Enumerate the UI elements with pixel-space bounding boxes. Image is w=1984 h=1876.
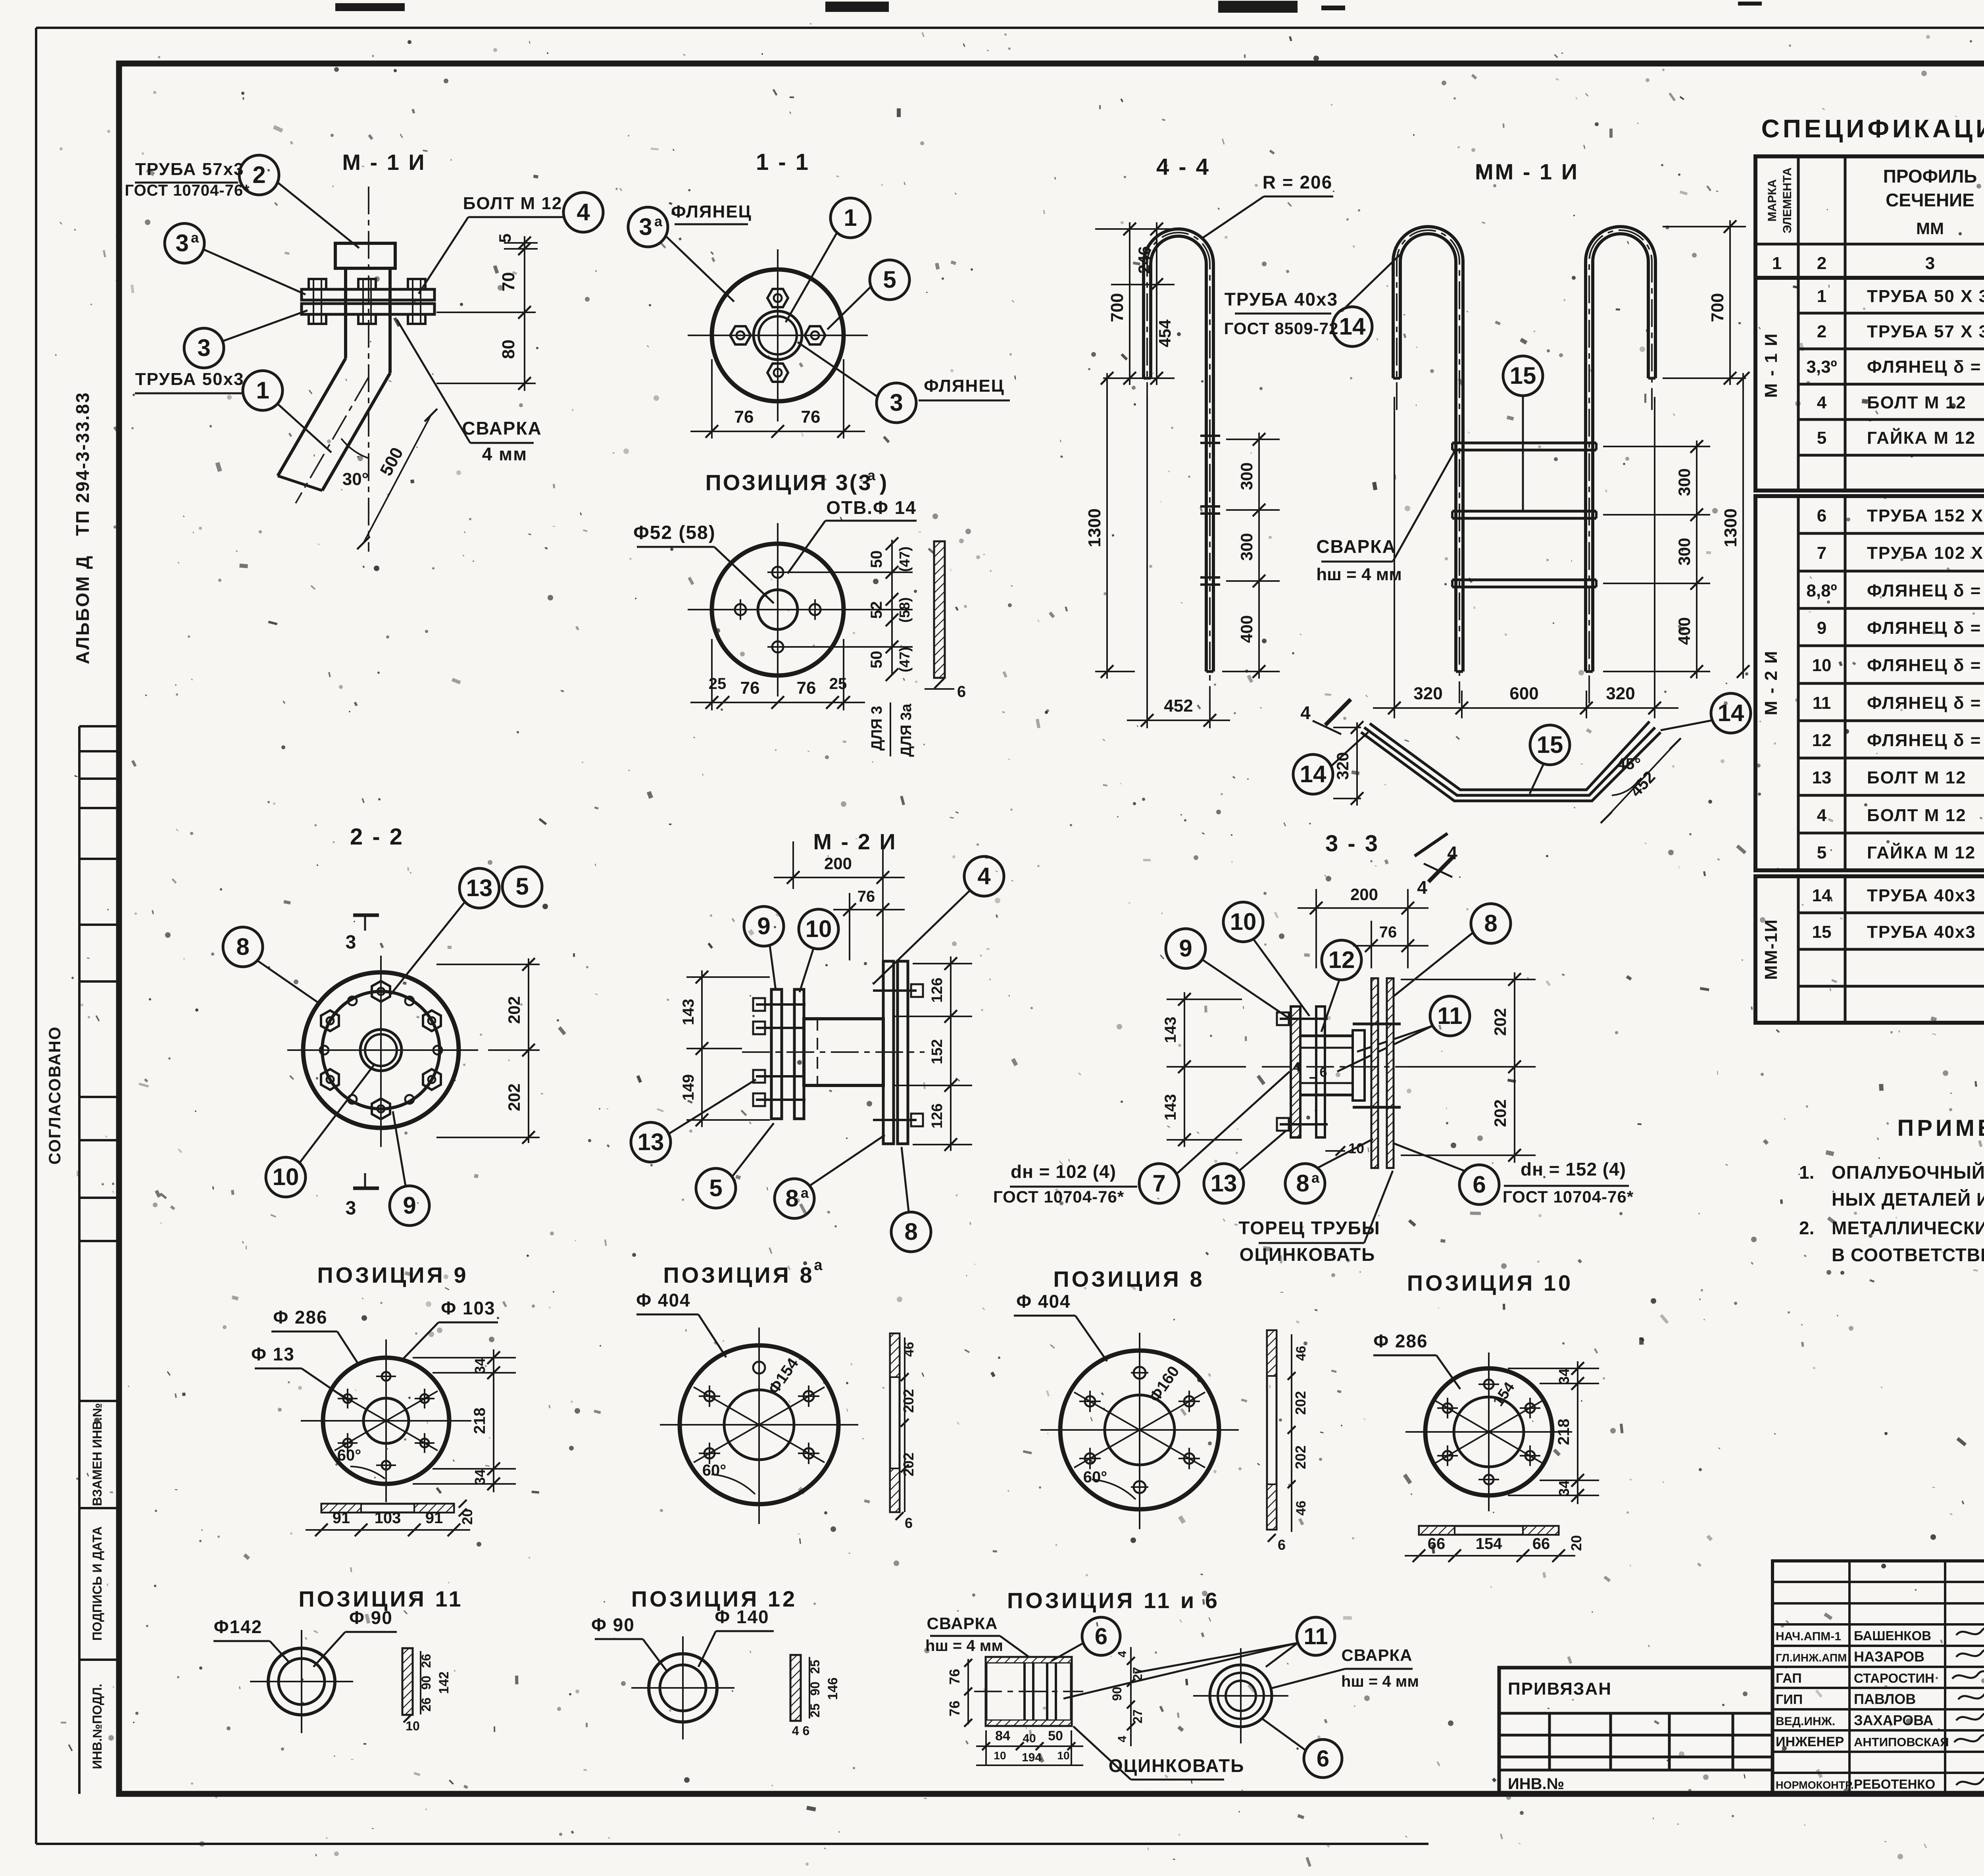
pipe section side view (986, 1657, 1071, 1726)
M-2I pipe 152 (804, 1019, 883, 1085)
svg-text:1: 1 (1817, 287, 1826, 306)
svg-text:202: 202 (1292, 1445, 1309, 1469)
svg-text:Φ 90: Φ 90 (591, 1614, 635, 1635)
svg-text:700: 700 (1708, 293, 1727, 322)
svg-text:3: 3 (639, 214, 652, 240)
section 3-3 marks (353, 914, 379, 917)
svg-text:СТАРОСТИН: СТАРОСТИН (1854, 1671, 1934, 1686)
svg-text:202: 202 (900, 1389, 917, 1413)
svg-text:76: 76 (801, 407, 821, 427)
svg-text:76: 76 (1379, 924, 1397, 941)
svg-text:1300: 1300 (1721, 508, 1740, 547)
svg-text:76: 76 (946, 1701, 963, 1716)
balloon 13 M2 (631, 1122, 671, 1162)
svg-text:202: 202 (1491, 1099, 1509, 1127)
svg-text:НАЗАРОВ: НАЗАРОВ (1854, 1649, 1924, 1665)
flange plates pos3/3a (302, 289, 434, 300)
svg-text:а: а (867, 467, 876, 483)
balloon 9 M2 (744, 906, 784, 946)
svg-text:1300: 1300 (1085, 508, 1104, 547)
svg-text:30°: 30° (342, 469, 369, 489)
svg-text:91: 91 (425, 1509, 443, 1527)
svg-text:ПОЗИЦИЯ 8: ПОЗИЦИЯ 8 (663, 1262, 814, 1287)
svg-text:а: а (191, 229, 199, 246)
svg-text:СВАРКА: СВАРКА (462, 418, 542, 439)
svg-text:БОЛТ М 12: БОЛТ М 12 (463, 194, 563, 213)
svg-text:300: 300 (1675, 538, 1694, 566)
dim 452 along diagonal (1606, 744, 1675, 818)
svg-text:МЕТАЛЛИЧЕСКИЕ ИЗДЕЛИЯ М-1И, М-: МЕТАЛЛИЧЕСКИЕ ИЗДЕЛИЯ М-1И, М-2И, ММ-1И … (1832, 1218, 1984, 1238)
svg-text:84: 84 (995, 1728, 1010, 1743)
svg-text:6: 6 (1473, 1171, 1486, 1198)
svg-text:4: 4 (1116, 1651, 1129, 1657)
svg-text:202: 202 (1292, 1391, 1309, 1415)
svg-text:hш = 4 мм: hш = 4 мм (1316, 565, 1402, 584)
svg-text:14: 14 (1300, 761, 1327, 787)
signature table (1773, 1561, 1984, 1794)
svg-text:76: 76 (734, 407, 754, 427)
2-2 flange circles (303, 972, 459, 1128)
svg-text:34: 34 (472, 1358, 488, 1374)
6 small holes (405, 997, 414, 1005)
svg-text:ГЛ.ИНЖ.АПМ: ГЛ.ИНЖ.АПМ (1776, 1652, 1847, 1664)
svg-text:45°: 45° (1617, 755, 1641, 773)
svg-text:ФЛЯНЕЦ δ = 6: ФЛЯНЕЦ δ = 6 (1867, 357, 1984, 377)
svg-text:СЕЧЕНИЕ: СЕЧЕНИЕ (1886, 190, 1974, 210)
M-2I bolts (756, 1003, 806, 1006)
rungs pos 15 (1452, 442, 1596, 444)
svg-text:5: 5 (709, 1175, 722, 1201)
pipe pos7 horizontal (1301, 1035, 1353, 1037)
svg-text:25: 25 (829, 675, 847, 693)
svg-text:1: 1 (256, 377, 269, 404)
svg-text:2: 2 (252, 162, 265, 188)
svg-text:ММ-1И: ММ-1И (1761, 919, 1781, 980)
4-4 bottom dim 452 (1146, 397, 1148, 728)
svg-text:ПРИВЯЗАН: ПРИВЯЗАН (1508, 1679, 1612, 1699)
svg-text:4: 4 (1817, 393, 1827, 412)
rung stubs on right leg (1200, 435, 1220, 437)
svg-text:М - 2 И: М - 2 И (813, 829, 897, 854)
svg-text:СВАРКА: СВАРКА (1342, 1646, 1413, 1664)
pos3 right dim chain (891, 540, 893, 675)
svg-text:27: 27 (1130, 1709, 1145, 1724)
M-2I flange plates left (pos 9,10) (771, 989, 782, 1119)
svg-text:4: 4 (577, 199, 590, 225)
section mark 4 upper (1325, 699, 1351, 725)
4-4 left dims (1095, 228, 1175, 230)
svg-text:90: 90 (419, 1676, 433, 1690)
connecting plates pos 11/12 (1353, 1030, 1365, 1101)
balloon 5 M2 (696, 1168, 736, 1208)
pos2 sleeve (335, 243, 395, 268)
svg-text:15: 15 (1812, 922, 1832, 942)
svg-text:АЛЬБОМ Д ТП 294-3-33.83: АЛЬБОМ Д ТП 294-3-33.83 (72, 391, 93, 664)
svg-text:М - 2 И: М - 2 И (1761, 650, 1781, 715)
pos 10 flange (1425, 1368, 1552, 1495)
svg-text:60°: 60° (1083, 1468, 1107, 1486)
svg-text:80: 80 (499, 340, 518, 359)
svg-text:ТРУБА 40х3: ТРУБА 40х3 (1225, 289, 1338, 310)
svg-text:М - 1 И: М - 1 И (1761, 332, 1781, 398)
svg-text:ПОЗИЦИЯ 11 и 6: ПОЗИЦИЯ 11 и 6 (1007, 1588, 1220, 1613)
svg-text:4: 4 (977, 863, 991, 889)
6 hex nuts (372, 981, 390, 1002)
svg-text:14: 14 (1339, 313, 1366, 340)
svg-text:4 6: 4 6 (792, 1724, 809, 1738)
svg-text:52: 52 (868, 601, 885, 619)
svg-text:90: 90 (808, 1682, 822, 1696)
svg-text:152: 152 (929, 1039, 946, 1064)
trapezoid dims (1356, 722, 1358, 806)
svg-text:452: 452 (1164, 696, 1193, 716)
svg-text:200: 200 (1350, 885, 1378, 904)
svg-text:dн = 152 (4): dн = 152 (4) (1521, 1159, 1626, 1179)
svg-text:14: 14 (1718, 700, 1744, 726)
svg-text:6: 6 (1317, 1746, 1329, 1772)
svg-text:Φ 404: Φ 404 (1016, 1291, 1071, 1312)
section mark 4 lower (1428, 856, 1454, 882)
balloon 3a (628, 207, 668, 247)
right vertical pipe pos6 (1371, 978, 1378, 1168)
svg-text:15: 15 (1510, 362, 1536, 389)
svg-text:ОПАЛУБОЧНЫЙ ЧЕРТЕЖ ВАННЫ БАССЕ: ОПАЛУБОЧНЫЙ ЧЕРТЕЖ ВАННЫ БАССЕЙНА, РАСПО… (1832, 1162, 1984, 1183)
svg-text:Φ 103: Φ 103 (441, 1298, 495, 1318)
svg-text:246: 246 (1135, 246, 1153, 274)
svg-text:5: 5 (515, 873, 529, 900)
ladder right dims (1663, 226, 1746, 227)
svg-text:10: 10 (1230, 908, 1257, 935)
svg-text:hш = 4 мм: hш = 4 мм (1341, 1673, 1419, 1690)
svg-text:ГОСТ 10704-76*: ГОСТ 10704-76* (1503, 1187, 1634, 1206)
pos 11 ring (268, 1648, 335, 1715)
svg-text:(58): (58) (896, 597, 913, 623)
balloon 14 left (1293, 754, 1333, 794)
svg-text:202: 202 (505, 1083, 523, 1111)
svg-text:М - 1 И: М - 1 И (342, 150, 426, 175)
svg-text:149: 149 (680, 1074, 697, 1101)
svg-text:6: 6 (957, 683, 966, 700)
svg-text:320: 320 (1606, 684, 1635, 703)
svg-text:13: 13 (638, 1129, 664, 1155)
pos 12 ring (649, 1654, 717, 1722)
svg-text:50: 50 (1048, 1728, 1063, 1743)
pos 10 strip (1419, 1526, 1559, 1535)
svg-text:143: 143 (680, 999, 697, 1026)
svg-text:ПАВЛОВ: ПАВЛОВ (1854, 1691, 1916, 1707)
svg-text:ФЛЯНЕЦ δ = 6: ФЛЯНЕЦ δ = 6 (1867, 731, 1984, 750)
svg-text:5: 5 (1817, 428, 1826, 448)
svg-text:ТРУБА 152 X 4: ТРУБА 152 X 4 (1867, 506, 1984, 525)
svg-text:34: 34 (1556, 1480, 1572, 1496)
svg-text:34: 34 (1556, 1368, 1572, 1384)
svg-text:6: 6 (1320, 1065, 1327, 1080)
svg-text:ТРУБА 40х3: ТРУБА 40х3 (1867, 922, 1976, 942)
pos 8 flange (1060, 1351, 1219, 1509)
4-4 hook (1144, 229, 1213, 672)
svg-text:ПОЗИЦИЯ 3(3: ПОЗИЦИЯ 3(3 (705, 470, 872, 495)
svg-text:400: 400 (1675, 617, 1694, 645)
svg-text:ИНЖЕНЕР: ИНЖЕНЕР (1776, 1734, 1844, 1749)
svg-text:76: 76 (797, 678, 816, 698)
specification table (1755, 156, 1984, 278)
svg-text:СПЕЦИФИКАЦИЯ МЕТАЛЛИЧЕСКИХ ИЗД: СПЕЦИФИКАЦИЯ МЕТАЛЛИЧЕСКИХ ИЗДЕЛИЙ (1761, 114, 1984, 143)
svg-text:300: 300 (1237, 533, 1256, 561)
svg-text:3: 3 (890, 389, 903, 416)
svg-text:143: 143 (1162, 1094, 1179, 1121)
svg-text:142: 142 (436, 1672, 452, 1694)
svg-text:66: 66 (1532, 1535, 1550, 1553)
balloon 6 top (1082, 1617, 1120, 1655)
balloon 9 (390, 1186, 429, 1226)
pos 8a strip (890, 1333, 900, 1512)
svg-text:1.: 1. (1799, 1162, 1814, 1183)
balloons 9 10 12 8 11 (1166, 929, 1205, 968)
svg-text:91: 91 (333, 1509, 350, 1527)
svg-text:46: 46 (1294, 1346, 1309, 1361)
svg-text:76: 76 (946, 1669, 963, 1685)
centerline 3-3 (1262, 1066, 1428, 1068)
svg-text:ПОЗИЦИЯ 12: ПОЗИЦИЯ 12 (631, 1586, 797, 1611)
svg-text:СВАРКА: СВАРКА (927, 1614, 998, 1633)
svg-text:ГАП: ГАП (1776, 1671, 1802, 1686)
pos 8a flange (680, 1345, 838, 1504)
svg-text:50: 50 (868, 550, 885, 568)
svg-text:dн = 102 (4): dн = 102 (4) (1011, 1161, 1116, 1182)
svg-text:(47): (47) (896, 546, 913, 572)
balloons 13 5 (459, 868, 499, 908)
svg-text:50: 50 (868, 651, 885, 669)
svg-text:218: 218 (1555, 1419, 1573, 1445)
svg-text:ГАЙКА M 12: ГАЙКА M 12 (1867, 427, 1976, 448)
svg-text:11: 11 (1813, 693, 1831, 713)
dims left pos11i6 (967, 1659, 969, 1724)
svg-text:146: 146 (825, 1678, 840, 1700)
pos3 bottom dims (711, 639, 713, 710)
balloon 8 M2 (891, 1212, 931, 1252)
svg-text:11: 11 (1303, 1624, 1328, 1649)
svg-text:6: 6 (1095, 1624, 1107, 1649)
2-2 dims 202/202 (436, 964, 540, 965)
svg-text:4 - 4: 4 - 4 (1156, 154, 1210, 180)
svg-text:НОРМОКОНТР.: НОРМОКОНТР. (1776, 1779, 1854, 1791)
svg-text:ДЛЯ 3а: ДЛЯ 3а (898, 703, 915, 757)
svg-text:а: а (801, 1185, 809, 1201)
svg-text:Φ 286: Φ 286 (1373, 1331, 1428, 1351)
svg-text:4: 4 (1300, 702, 1311, 723)
mid dim column (1130, 1647, 1132, 1746)
vertical pipe pos1 (344, 268, 347, 358)
svg-text:а: а (814, 1257, 823, 1274)
svg-text:10: 10 (1812, 656, 1832, 675)
svg-text:218: 218 (471, 1408, 488, 1434)
svg-text:300: 300 (1675, 468, 1694, 496)
M-2I centerline (742, 1051, 925, 1053)
pos 12 strip (790, 1655, 801, 1721)
balloon 5 (870, 260, 909, 300)
svg-text:1: 1 (1772, 254, 1782, 273)
svg-text:202: 202 (1491, 1008, 1509, 1036)
svg-text:12: 12 (1812, 731, 1832, 750)
svg-text:400: 400 (1237, 615, 1256, 643)
svg-text:ТРУБА 40х3: ТРУБА 40х3 (1867, 886, 1976, 905)
svg-text:ГОСТ 10704-76*: ГОСТ 10704-76* (125, 182, 250, 199)
svg-text:ОЦИНКОВАТЬ: ОЦИНКОВАТЬ (1109, 1755, 1245, 1776)
svg-text:3: 3 (346, 1198, 356, 1219)
svg-text:8: 8 (1484, 910, 1497, 937)
svg-text:ПОЗИЦИЯ 8: ПОЗИЦИЯ 8 (1053, 1266, 1204, 1291)
right hook (1586, 227, 1655, 672)
svg-text:ПРИМЕЧАНИЯ: ПРИМЕЧАНИЯ (1897, 1115, 1984, 1141)
balloon 6 bottom (1304, 1739, 1342, 1778)
svg-text:АНТИПОВСКАЯ: АНТИПОВСКАЯ (1854, 1735, 1949, 1749)
svg-text:9: 9 (403, 1192, 416, 1219)
balloon 15 (1503, 356, 1543, 396)
privyazan block (1499, 1668, 1773, 1794)
svg-text:ГАЙКА M 12: ГАЙКА M 12 (1867, 842, 1976, 862)
svg-text:126: 126 (929, 1103, 946, 1128)
svg-text:Φ 286: Φ 286 (273, 1307, 327, 1328)
M-1I drawing: center line (368, 187, 369, 552)
svg-text:2: 2 (1817, 322, 1826, 341)
svg-text:202: 202 (505, 996, 523, 1024)
svg-text:10: 10 (406, 1719, 420, 1733)
pos 8 strip (1267, 1330, 1277, 1530)
svg-text:25: 25 (808, 1703, 822, 1718)
svg-text:4 мм: 4 мм (482, 444, 527, 464)
svg-text:26: 26 (419, 1697, 433, 1712)
svg-text:3: 3 (346, 932, 356, 953)
svg-text:ТРУБА 50 X 3: ТРУБА 50 X 3 (1867, 287, 1984, 306)
svg-text:25: 25 (709, 675, 727, 693)
svg-text:25: 25 (808, 1660, 822, 1674)
svg-text:14: 14 (1812, 886, 1832, 905)
svg-text:3,3º: 3,3º (1806, 357, 1837, 377)
leader 2 to sleeve (278, 183, 359, 248)
svg-text:9: 9 (757, 913, 770, 939)
svg-text:103: 103 (375, 1509, 401, 1527)
svg-text:ТОРЕЦ ТРУБЫ: ТОРЕЦ ТРУБЫ (1238, 1218, 1380, 1238)
svg-text:6: 6 (1278, 1537, 1286, 1553)
svg-text:143: 143 (1162, 1017, 1179, 1043)
svg-text:4: 4 (1116, 1736, 1129, 1742)
M-2I right plates (pos 8a,8) (883, 961, 894, 1144)
svg-text:ПРОФИЛЬ: ПРОФИЛЬ (1883, 166, 1977, 187)
svg-text:2.: 2. (1799, 1218, 1814, 1238)
svg-text:ММ - 1 И: ММ - 1 И (1475, 159, 1579, 184)
svg-text:hш = 4 мм: hш = 4 мм (925, 1637, 1003, 1655)
svg-text:ОТВ.Φ 14: ОТВ.Φ 14 (826, 497, 917, 518)
svg-text:46: 46 (1294, 1501, 1309, 1516)
svg-text:ГОСТ 10704-76*: ГОСТ 10704-76* (993, 1187, 1124, 1206)
balloon 8a M2 (775, 1179, 814, 1218)
svg-text:ИНВ.№ПОДЛ.: ИНВ.№ПОДЛ. (90, 1684, 104, 1769)
svg-text:ОЦИНКОВАТЬ: ОЦИНКОВАТЬ (1240, 1244, 1376, 1265)
svg-text:ПОЗИЦИЯ 9: ПОЗИЦИЯ 9 (317, 1262, 468, 1287)
svg-text:10: 10 (806, 916, 832, 942)
pos 9 flange (323, 1358, 449, 1484)
svg-text:ИНВ.№: ИНВ.№ (1508, 1775, 1564, 1793)
svg-text:): ) (880, 470, 887, 495)
svg-text:5: 5 (883, 266, 896, 293)
left hook (1393, 227, 1463, 672)
svg-text:13: 13 (466, 875, 493, 901)
pos3 flange circle (712, 544, 844, 675)
svg-text:300: 300 (1237, 462, 1256, 490)
svg-text:4: 4 (1447, 843, 1457, 863)
section mark near title (1415, 833, 1448, 856)
svg-text:154: 154 (1476, 1535, 1502, 1553)
svg-text:34: 34 (472, 1469, 488, 1485)
svg-text:ФЛЯНЕЦ δ = 20: ФЛЯНЕЦ δ = 20 (1867, 618, 1984, 638)
balloon 3 (877, 383, 916, 423)
svg-text:10: 10 (994, 1749, 1006, 1762)
svg-text:ГИП: ГИП (1776, 1692, 1803, 1707)
svg-text:ТРУБА 50х3: ТРУБА 50х3 (135, 369, 244, 389)
svg-text:(47): (47) (896, 647, 913, 672)
svg-text:8: 8 (1296, 1170, 1309, 1197)
svg-text:ФЛЯНЕЦ: ФЛЯНЕЦ (671, 202, 752, 221)
svg-text:8,8º: 8,8º (1806, 581, 1837, 600)
balloons 7 13 8a 6 (1139, 1164, 1179, 1203)
svg-text:3: 3 (197, 335, 210, 361)
svg-text:2: 2 (1817, 254, 1826, 273)
svg-text:8: 8 (785, 1185, 798, 1212)
svg-text:9: 9 (1179, 935, 1192, 962)
svg-text:7: 7 (1817, 543, 1826, 563)
svg-text:9: 9 (1817, 618, 1826, 638)
svg-text:194: 194 (1022, 1751, 1042, 1764)
svg-text:320: 320 (1333, 752, 1352, 780)
svg-text:БОЛТ M 12: БОЛТ M 12 (1867, 393, 1967, 412)
svg-text:8: 8 (236, 933, 249, 960)
svg-text:7: 7 (1152, 1170, 1165, 1197)
balloon 3 (184, 328, 224, 368)
balloon 10 (266, 1157, 306, 1197)
pos 11 strip (402, 1648, 413, 1715)
svg-text:В СООТВЕТСТВИИ С УКАЗАНИЯМИ СЕ: В СООТВЕТСТВИИ С УКАЗАНИЯМИ СЕРИИ 2.270-… (1832, 1245, 1984, 1265)
svg-text:20: 20 (459, 1509, 475, 1525)
left dims 143/143 (1184, 992, 1185, 1147)
svg-text:ММ: ММ (1916, 219, 1944, 238)
svg-text:12: 12 (1328, 947, 1355, 973)
svg-text:а: а (654, 213, 663, 229)
svg-text:ФЛЯНЕЦ δ = 20: ФЛЯНЕЦ δ = 20 (1867, 656, 1984, 675)
svg-text:4: 4 (1817, 806, 1827, 825)
trapezoid pipe (1364, 727, 1655, 795)
svg-text:БАШЕНКОВ: БАШЕНКОВ (1854, 1628, 1931, 1643)
svg-text:БОЛТ M 12: БОЛТ M 12 (1867, 806, 1967, 825)
svg-text:8: 8 (904, 1218, 917, 1245)
svg-text:ЭЛЕМЕНТА: ЭЛЕМЕНТА (1781, 167, 1794, 233)
svg-text:126: 126 (929, 977, 946, 1002)
svg-text:РЕБОТЕНКО: РЕБОТЕНКО (1854, 1777, 1935, 1791)
ring front view (1210, 1665, 1272, 1727)
balloon 4 M2 (964, 856, 1004, 896)
balloon 11 (1297, 1617, 1335, 1655)
svg-text:13: 13 (1812, 768, 1832, 787)
svg-text:90: 90 (1110, 1687, 1124, 1701)
svg-text:3 - 3: 3 - 3 (1325, 831, 1379, 856)
svg-text:R = 206: R = 206 (1263, 172, 1332, 192)
svg-text:3: 3 (175, 230, 188, 256)
top edge scan marks (335, 1, 1984, 13)
svg-text:26: 26 (419, 1654, 433, 1668)
svg-text:Φ 140: Φ 140 (715, 1607, 769, 1627)
svg-text:ДЛЯ 3: ДЛЯ 3 (869, 706, 885, 751)
svg-text:5: 5 (1817, 843, 1826, 862)
svg-text:ЗАХАРОВА: ЗАХАРОВА (1854, 1712, 1933, 1728)
